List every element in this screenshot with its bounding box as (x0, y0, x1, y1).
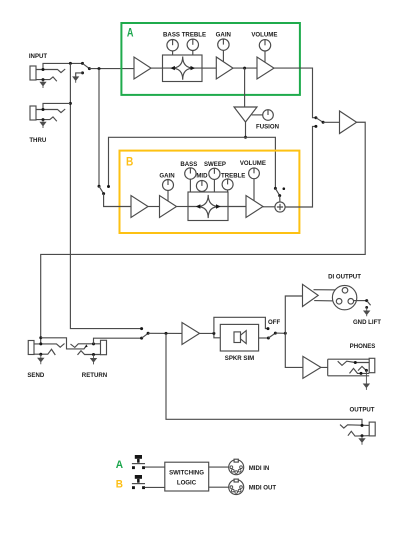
svg-text:DI OUTPUT: DI OUTPUT (328, 273, 361, 280)
op-amp A2 gain (216, 57, 233, 79)
wire bus to B select (98, 69, 100, 187)
wire B3 to sum (263, 206, 275, 208)
wire B2 to tonestack (177, 206, 189, 208)
switch S3 arm (275, 188, 279, 195)
wire to output jack (166, 333, 362, 425)
wire return to loop switch (94, 338, 142, 344)
svg-text:SPKR SIM: SPKR SIM (225, 355, 254, 362)
svg-text:SEND: SEND (27, 372, 45, 379)
knob FUSION (263, 110, 274, 121)
wire tonestack to A2 (202, 67, 216, 69)
svg-text:INPUT: INPUT (29, 53, 48, 60)
wire fusion to B input select (109, 137, 246, 186)
wire A1 to tonestack (151, 67, 163, 69)
node J2 tip (42, 108, 45, 111)
node input bus junction (69, 62, 72, 65)
wire bus down to phones (285, 333, 303, 367)
svg-text:OFF: OFF (268, 319, 280, 326)
svg-text:GAIN: GAIN (159, 172, 174, 179)
jack J2 ring contact (36, 117, 57, 121)
node fusion tap (243, 67, 246, 70)
node J2 sleeve (42, 118, 45, 121)
node S1 arm end (88, 67, 91, 70)
knob BASS A (167, 40, 178, 51)
MIDI IN DIN connector (229, 459, 244, 475)
wire logic to MIDI IN (209, 466, 229, 468)
svg-text:THRU: THRU (29, 137, 47, 144)
node J3 sleeve (39, 353, 42, 356)
SWITCHING LOGIC box (165, 462, 209, 491)
switch S5 loop contact direct (140, 327, 143, 330)
knob TREBLE B (222, 179, 233, 190)
wire bypass over sim (214, 317, 268, 333)
ground J5 (364, 370, 370, 390)
svg-text:TREBLE: TREBLE (182, 31, 206, 38)
tone stack B arrows (196, 204, 221, 208)
jack J5 PHONES body (369, 358, 375, 372)
tone stack B box (188, 192, 228, 221)
node S5 common (147, 332, 150, 335)
node J5 sleeve (365, 369, 368, 372)
node J5 tip (354, 361, 357, 364)
svg-text:FUSION: FUSION (256, 123, 279, 130)
wire sum out (285, 126, 316, 207)
switch S1 mute contact (81, 71, 84, 74)
svg-text:A: A (116, 459, 123, 471)
svg-text:MID: MID (196, 172, 208, 179)
ground J4 (91, 355, 97, 365)
channel A box (121, 23, 300, 95)
summer U5 (275, 202, 285, 212)
wire SW-B to logic (145, 486, 165, 488)
wire sim out (259, 337, 269, 339)
switch S2 B input select contact A (98, 185, 101, 188)
svg-text:TREBLE: TREBLE (221, 172, 245, 179)
ground J2 (40, 120, 45, 128)
switch S5 arm (142, 333, 149, 338)
jack J4 RETURN normalled contact (71, 344, 101, 348)
jack J1 ring contact (36, 77, 57, 81)
wire XLR to gnd lift (354, 300, 367, 302)
switch S2 contact B (107, 185, 110, 188)
tone stack A arrows (170, 66, 195, 70)
speaker icon (234, 332, 241, 343)
svg-text:MIDI IN: MIDI IN (249, 465, 270, 472)
node J3 loop branch (39, 336, 42, 339)
knob SWEEP B (209, 168, 220, 179)
node thru tap (69, 102, 72, 105)
svg-text:SWITCHING: SWITCHING (169, 469, 204, 476)
node spkr sim bypass tap (212, 332, 215, 335)
svg-text:A: A (127, 25, 134, 39)
jack J2 tip contact (36, 109, 65, 113)
svg-text:OUTPUT: OUTPUT (349, 406, 374, 413)
svg-text:MIDI OUT: MIDI OUT (249, 484, 277, 491)
node S4 common (322, 121, 325, 124)
op-amp B2 gain (160, 196, 177, 218)
wire thru feed (43, 103, 70, 109)
svg-text:RETURN: RETURN (82, 372, 107, 379)
wire S5 to power amp (148, 332, 182, 334)
svg-text:B: B (126, 155, 134, 169)
svg-text:SWEEP: SWEEP (204, 161, 226, 168)
node S6 common (274, 332, 277, 335)
op-amp A3 volume (257, 57, 274, 79)
svg-text:VOLUME: VOLUME (240, 160, 266, 167)
wire S1 mute to ground (76, 73, 83, 77)
SPKR SIM box (220, 324, 258, 351)
wire fusion to B sum select (246, 137, 276, 188)
svg-text:BASS: BASS (180, 161, 197, 168)
wire bus up to DI (285, 296, 302, 333)
svg-text:PHONES: PHONES (350, 343, 376, 350)
knob VOLUME B (249, 168, 260, 179)
wire tonestack to B3 (228, 206, 246, 208)
node J1 tip (42, 68, 45, 71)
ground J6 (359, 436, 365, 445)
jack J2 THRU body (30, 106, 36, 120)
jack J3 SEND body (28, 341, 34, 355)
wire S6 to bus (275, 332, 285, 334)
switch S3 fusion sum contact A (274, 187, 277, 190)
wire phones split (321, 359, 369, 376)
jack J5 tip contact (338, 361, 370, 365)
footswitch SW-A (132, 455, 145, 469)
MIDI OUT DIN connector (229, 479, 244, 495)
XLR connector DI (332, 285, 356, 309)
node J6 tip (361, 424, 364, 427)
wire fusion drop (244, 68, 246, 107)
jack J6 tip contact (340, 425, 369, 429)
node J5 ring (360, 372, 363, 375)
op-amp B1 (131, 196, 148, 218)
node J1 sleeve (42, 78, 45, 81)
tone stack A star (172, 57, 194, 80)
knob BASS B (185, 168, 196, 179)
svg-text:GAIN: GAIN (216, 31, 231, 38)
op-amp B3 volume (246, 196, 263, 218)
jack J3 tip contact (34, 344, 65, 348)
knob TREBLE A (187, 39, 198, 50)
knob MID B (196, 180, 207, 191)
switch S6 arm (268, 333, 275, 338)
wire J1 tip riser (43, 63, 83, 69)
wire U8 to XLR (314, 290, 343, 301)
svg-text:VOLUME: VOLUME (251, 31, 277, 38)
switch S4 arm (316, 118, 323, 123)
wire fusion out (245, 122, 247, 137)
switch S6 sim contact off (267, 327, 270, 330)
wire S2 to B1 (104, 194, 131, 207)
svg-text:B: B (116, 478, 123, 490)
jack J1 tip contact (36, 69, 65, 73)
node J4 tip (92, 342, 95, 345)
wire S3 to sum (279, 196, 281, 202)
switch S4 channel select contact A (314, 116, 317, 119)
jack J4 RETURN body (101, 340, 107, 354)
tone stack A box (163, 55, 203, 82)
switch S5 contact return (140, 337, 143, 340)
switch S1 input mute pivot (81, 62, 84, 65)
jack J3 ring contact (34, 349, 55, 355)
switch S2 arm (99, 186, 104, 193)
jack J5 ring contacts (350, 368, 370, 373)
svg-text:BASS: BASS (163, 31, 180, 38)
jack J6 OUTPUT body (369, 422, 375, 436)
jack J6 ring contact (348, 431, 369, 436)
switch S7 gnd lift (365, 299, 368, 302)
jack J1 INPUT body (30, 66, 36, 80)
switch S4 contact B (314, 125, 317, 128)
node bus junction (284, 332, 287, 335)
ground J3 (38, 354, 44, 364)
op-amp U6 master (340, 111, 357, 134)
wire logic to MIDI OUT (209, 486, 229, 488)
ground gnd-lift (365, 306, 368, 309)
node S3 end (278, 194, 281, 197)
ground J1 (40, 80, 45, 88)
footswitch SW-B (132, 475, 145, 489)
jack J4 ring contact (78, 351, 101, 355)
wire SW-A to logic (145, 466, 165, 468)
node J4 sleeve (92, 353, 95, 356)
ground S1 (73, 77, 78, 83)
switch S1 arm (83, 63, 90, 68)
tone stack A line (163, 67, 203, 69)
switch S6 contact sim (267, 337, 270, 340)
node J6 sleeve (361, 434, 364, 437)
wire A2 to A3 (233, 67, 257, 69)
svg-text:LOGIC: LOGIC (177, 479, 197, 486)
wire S4 to master amp (323, 121, 339, 123)
node J3 tip (39, 342, 42, 345)
knob GAIN B (163, 180, 174, 191)
wire input to channel A (89, 68, 134, 70)
node fusion split (244, 136, 247, 139)
channel B box (120, 151, 300, 233)
op-amp U7 line driver (182, 323, 200, 345)
op-amp U9 phones (303, 356, 321, 378)
wire input bus down (70, 63, 141, 328)
node output tap (165, 332, 168, 335)
op-amp A1 (134, 57, 151, 79)
knob GAIN A (218, 39, 229, 50)
tone stack B star (197, 195, 219, 218)
switch S3 open contact (283, 187, 286, 190)
wire send normalled path (41, 338, 86, 349)
svg-text:GND LIFT: GND LIFT (353, 319, 381, 326)
knob VOLUME A (259, 40, 270, 51)
op-amp U8 DI driver (303, 284, 319, 306)
node S2 common (102, 192, 105, 195)
wire master out down and across (41, 122, 366, 344)
wire B1 to B2 (148, 206, 160, 208)
arrow normalled into return (85, 344, 88, 347)
tone stack B line (188, 206, 228, 208)
op-amp U4 fusion mixer (234, 107, 257, 122)
node B-feed tap (98, 67, 101, 70)
wire U7 out (200, 333, 221, 337)
wire A out (274, 68, 316, 118)
